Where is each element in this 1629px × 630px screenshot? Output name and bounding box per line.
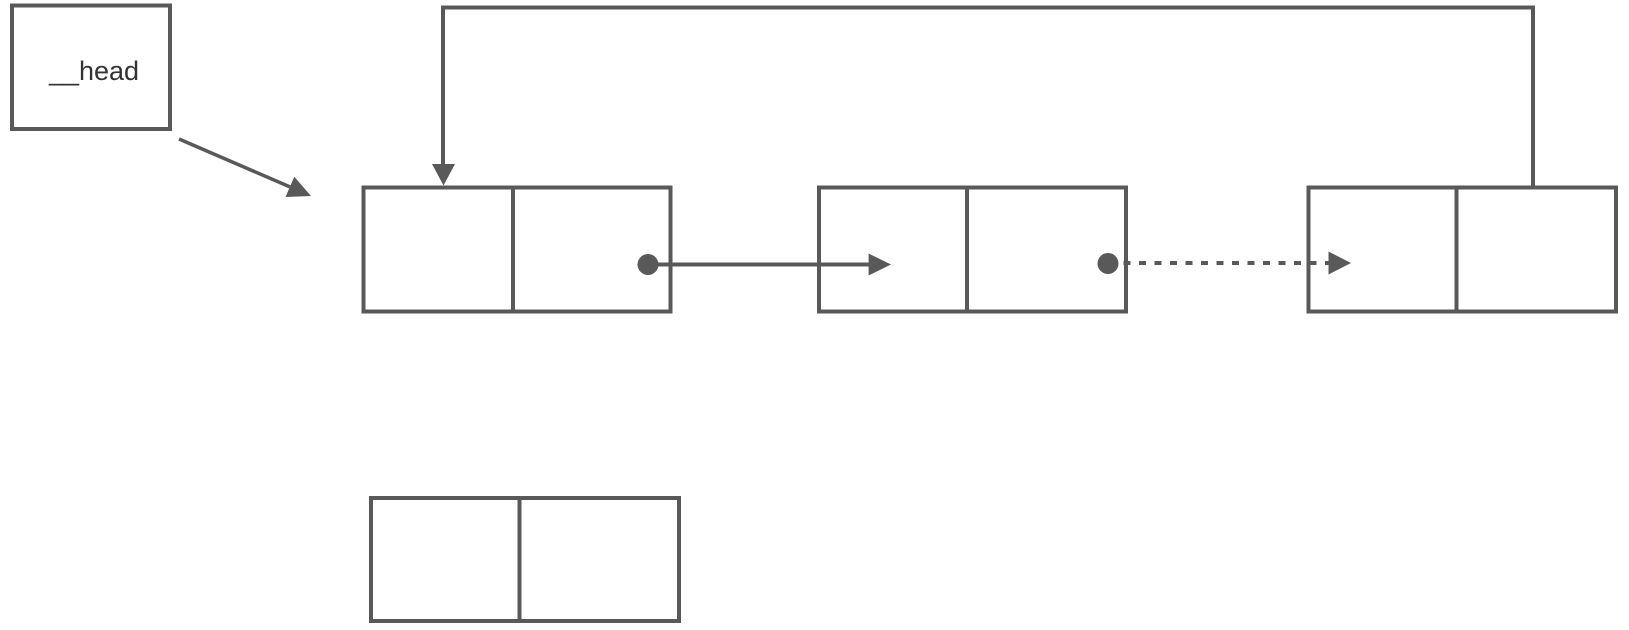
junction dot: N1.next origin — [638, 254, 659, 275]
wire: N3.next back to N1 (circular link, top route) — [432, 8, 1533, 188]
node N4 box (detached node, bottom) — [371, 498, 679, 621]
node N2 box — [819, 188, 1126, 312]
node N1 box — [364, 188, 671, 312]
wire: N1.next to N2 (solid arrow) — [648, 254, 891, 276]
junction dot: N2.next origin — [1098, 253, 1119, 274]
node N3 box — [1309, 188, 1617, 312]
wire: N2.next to N3 (dashed arrow) — [1108, 252, 1351, 275]
head box — [12, 6, 170, 130]
wire: head to node N1 (diagonal arrow) — [179, 139, 311, 197]
svg-text:__head: __head — [48, 56, 139, 86]
